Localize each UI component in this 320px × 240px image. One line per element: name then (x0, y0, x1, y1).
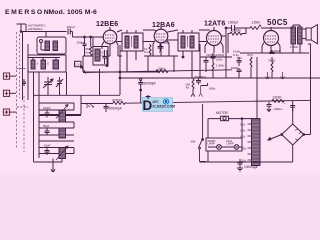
wire box lead (92, 37, 94, 47)
wire trafo bottom down (293, 44, 300, 53)
svg-text:140n: 140n (209, 86, 216, 90)
svg-text:100μF: 100μF (67, 113, 75, 117)
capacitor C7 50000pF agc (140, 79, 142, 81)
svg-text:ДЗС: ДЗС (153, 100, 160, 104)
svg-text:4700Ω: 4700Ω (112, 99, 123, 103)
wire T2 to V3 (199, 30, 210, 42)
wire pin terminals (266, 72, 285, 79)
tube V1 12BE6 (103, 30, 117, 44)
ladder right rail (73, 103, 75, 154)
wire trafo top (292, 25, 300, 28)
svg-text:50000: 50000 (231, 66, 239, 70)
antenna (17, 24, 26, 32)
variable capacitor CV1 (44, 77, 52, 89)
grid coil box (93, 47, 108, 66)
svg-text:S: S (47, 62, 49, 66)
svg-text:LAMP: LAMP (208, 142, 215, 146)
svg-text:2.2Mn: 2.2Mn (232, 29, 241, 33)
capacitor C2 100pf (83, 37, 87, 56)
svg-text:10pF: 10pF (44, 144, 51, 148)
coil L7 (59, 148, 66, 159)
capacitor C8 100pF (45, 110, 50, 118)
jack J2 (3, 90, 9, 96)
svg-text:30pF: 30pF (274, 49, 281, 53)
svg-text:50C5: 50C5 (267, 18, 288, 27)
capacitor stub (22, 79, 26, 86)
wire coil tops (28, 58, 60, 61)
resistor R12 1200 (272, 99, 284, 102)
coil box oscillator section (28, 55, 66, 72)
bridge rectifier D1-D4 (282, 124, 304, 145)
capacitor C17 30pF (270, 50, 275, 54)
capacitor C19 30uF (290, 106, 295, 112)
loop antenna box (37, 37, 66, 54)
jack J1 (3, 73, 9, 79)
dashed gang line 3 (23, 96, 25, 152)
wire ladder bottom (34, 159, 63, 173)
wire bridge bottom riser (292, 145, 294, 162)
coil L4 (95, 49, 100, 61)
svg-text:100n: 100n (216, 58, 223, 62)
svg-text:160v: 160v (240, 136, 246, 139)
node grid dots (84, 36, 86, 38)
resistor R7 1.3M (212, 61, 214, 78)
wire bus y70 (83, 70, 232, 73)
coil L1 (31, 60, 35, 69)
trimmer box CV (75, 61, 82, 66)
IF transformer T2 box (178, 33, 199, 51)
svg-text:0.1Mn: 0.1Mn (233, 50, 241, 54)
svg-text:Kn: Kn (86, 51, 90, 55)
T2 primary coil (181, 36, 185, 48)
capacitor C4 (103, 50, 108, 65)
wire speaker bottom (308, 43, 311, 45)
svg-text:100pF: 100pF (216, 53, 225, 57)
wire T1 to V2 (143, 30, 156, 42)
switch S1 wavers (86, 104, 94, 107)
svg-text:1.3Mn: 1.3Mn (216, 64, 225, 68)
resistor R9 100K vertical (191, 78, 195, 97)
speaker SP (306, 28, 311, 40)
svg-text:750Ω: 750Ω (268, 59, 276, 63)
wire bus left (83, 56, 160, 72)
capacitor C11 1000uF (232, 25, 235, 31)
svg-text:100 pf: 100 pf (67, 25, 76, 29)
svg-text:C.V.: C.V. (75, 63, 80, 66)
tube V2 12BA6 (154, 29, 168, 43)
svg-text:50pF: 50pF (43, 124, 50, 128)
wire V3 pins down (200, 46, 232, 57)
motor M1 (221, 116, 229, 121)
svg-text:10000μμf: 10000μμf (244, 165, 258, 169)
T1 secondary coil (134, 36, 138, 48)
wire right riser x309 (304, 44, 311, 135)
tube V3 12AT6 (207, 31, 222, 46)
wire vertical x120 (120, 45, 122, 95)
svg-text:190v: 190v (240, 130, 246, 133)
capacitor C9 (45, 128, 50, 136)
wire lamp leads (208, 146, 242, 148)
svg-text:12AT6: 12AT6 (204, 21, 226, 28)
svg-text:EMERSON: EMERSON (5, 9, 50, 16)
capacitor C16 1000uF (196, 78, 201, 85)
svg-text:125v: 125v (241, 148, 247, 151)
watermark box (142, 95, 175, 113)
svg-text:Kn: Kn (100, 54, 104, 58)
wire 4700 line (81, 100, 311, 103)
svg-text:IC.DZSC.COM: IC.DZSC.COM (153, 105, 176, 109)
column capacitor C12 100pF (211, 53, 216, 61)
wire risers mid (148, 44, 200, 78)
resistor R4 24K (156, 70, 168, 73)
T1 primary coil (125, 36, 129, 48)
ladder rail left (33, 100, 35, 162)
arrow tuning a (56, 105, 68, 119)
T2 secondary coil (190, 36, 194, 48)
resistor R1 470K (89, 37, 91, 57)
wire V2 to T2 (168, 30, 179, 40)
jack J3 (3, 109, 9, 115)
dashed gang line 1 (16, 32, 18, 148)
svg-text:≠160pF: ≠160pF (206, 53, 216, 57)
svg-text:LAMP: LAMP (227, 142, 234, 146)
capacitor C14 0.1uF (237, 57, 242, 66)
svg-text:Kn: Kn (186, 85, 190, 89)
svg-text:12BE6: 12BE6 (96, 21, 118, 28)
resistor R11 750 vertical (271, 57, 273, 78)
wire 2.2M riser (228, 28, 246, 53)
node A (20, 31, 22, 33)
wire loop riser (45, 32, 47, 38)
coil L2 (41, 60, 46, 69)
T2 leads (183, 30, 192, 78)
svg-text:1000μf: 1000μf (228, 21, 238, 25)
wire V2 under (144, 44, 178, 56)
lamp box (206, 138, 242, 151)
wire transformer top riser (256, 57, 258, 119)
wire 50C5 pins (262, 28, 280, 53)
output transformer T3 primary (291, 27, 296, 44)
wire bridge to transformer arrow (268, 135, 282, 141)
dashed link b (17, 106, 28, 108)
wire top left bus (21, 32, 104, 38)
svg-text:220v: 220v (240, 124, 246, 127)
capacitor C18 30uF (267, 102, 272, 112)
potentiometer VR1 stub (199, 86, 203, 97)
ladder rail right (38, 100, 40, 158)
svg-text:100pF: 100pF (43, 106, 51, 110)
capacitor C5 50000pF (104, 103, 109, 112)
wire motor leads (208, 119, 257, 138)
wire heater line y53 (240, 52, 309, 54)
wire V1 plate to T1 (117, 30, 123, 42)
svg-text:100pf: 100pf (77, 41, 85, 45)
wire B+ top line (226, 27, 292, 29)
lamp LP1 (217, 145, 222, 150)
svg-text:1200n: 1200n (273, 96, 282, 100)
power transformer L8 winding (252, 119, 261, 166)
svg-text:MOTOR: MOTOR (216, 111, 229, 115)
variable capacitor CV2 trimmer (57, 77, 62, 88)
svg-text:Mod. 1005 M-6: Mod. 1005 M-6 (49, 9, 97, 16)
svg-text:SW: SW (191, 140, 196, 144)
svg-text:D: D (143, 98, 153, 113)
coil L3 (53, 60, 59, 69)
svg-text:2.2Mn: 2.2Mn (290, 45, 299, 49)
wire left risers (23, 32, 100, 101)
resistor R6 2.2M (228, 32, 246, 35)
resistor R2 4700 (113, 102, 127, 105)
svg-text:ANTENNA: ANTENNA (28, 27, 42, 31)
output transformer T3 secondary (298, 27, 303, 44)
capacitor C13 160pF (204, 57, 209, 72)
dashed gang line 2 (19, 34, 21, 98)
svg-text:110v: 110v (241, 160, 247, 163)
ladder rungs (39, 103, 81, 154)
T1 leads (127, 30, 136, 72)
svg-text:50000pF: 50000pF (109, 107, 122, 111)
wire corner to 4700 line (34, 95, 121, 114)
resistor R3 12K vertical (149, 44, 151, 56)
wire bridge top riser (292, 101, 294, 125)
loop antenna coil (45, 41, 50, 51)
capacitor C6 100pf (158, 44, 164, 51)
svg-text:24Kn: 24Kn (158, 67, 166, 71)
svg-text:12BA6: 12BA6 (152, 22, 175, 29)
transformer taps (248, 124, 252, 160)
wire V3 plate up (222, 28, 227, 78)
wire trafo to speaker (302, 29, 306, 39)
resistor R5 .12M (250, 25, 261, 30)
capacitor C10 (45, 148, 50, 156)
svg-text:50000pF: 50000pF (144, 82, 157, 86)
dashed link a (17, 68, 28, 70)
svg-text:−30μF+: −30μF+ (273, 107, 284, 111)
svg-text:PM: PM (237, 56, 242, 60)
lamp LP2 (234, 145, 239, 150)
tube V4 50C5 (264, 31, 279, 46)
coil L5 (59, 110, 66, 122)
wire second antenna lead (25, 24, 27, 32)
wire bottom line (200, 161, 293, 163)
svg-text:Kn: Kn (144, 50, 148, 54)
resistor R8 47 (250, 57, 252, 78)
wire bus y77 (119, 77, 320, 79)
wire lamp box bottom (207, 151, 209, 162)
IF transformer T1 box (122, 33, 143, 51)
coil L6 (59, 128, 66, 138)
svg-text:.12Mn: .12Mn (251, 21, 260, 25)
svg-text:100pf: 100pf (162, 41, 170, 45)
switch S2 (199, 104, 206, 162)
capacitor C15 50000pF (237, 68, 242, 78)
capacitor 100pf antenna coupling (68, 29, 70, 35)
svg-text:50000μF: 50000μF (195, 75, 207, 79)
wire V1 cathode bus (83, 45, 122, 56)
capacitor C20 10000uF (237, 159, 243, 171)
arrow tuning b (56, 146, 68, 160)
